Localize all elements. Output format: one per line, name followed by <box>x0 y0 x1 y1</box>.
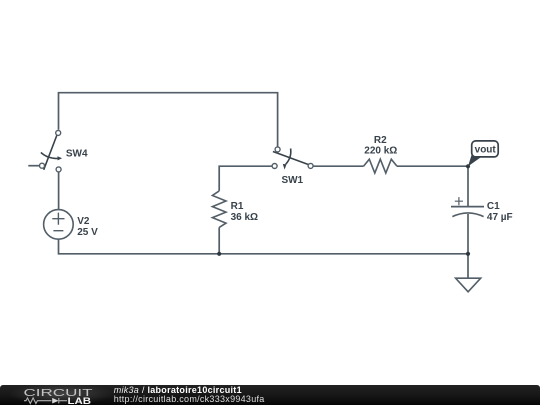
switch SW1 blade and motion arrow <box>273 149 310 166</box>
footer credit text <box>114 386 265 404</box>
svg-text:LAB: LAB <box>68 396 92 405</box>
resistor R2 220k horizontal zigzag <box>364 159 398 173</box>
switch SW1 terminal circles <box>272 147 313 169</box>
capacitor C1 polarized plates <box>451 197 484 217</box>
svg-text:220 kΩ: 220 kΩ <box>364 146 397 157</box>
svg-text:47 µF: 47 µF <box>487 212 513 223</box>
switch SW4 terminal circles <box>40 130 62 172</box>
switch SW4 blade and motion arrow <box>41 135 58 170</box>
wire C1 bottom plate to bottom rail <box>467 214 469 254</box>
junction dot at vout node <box>466 164 470 168</box>
svg-text:C1: C1 <box>487 201 500 212</box>
svg-text:V2: V2 <box>77 216 90 227</box>
wire R2 right lead to vout node <box>397 165 468 167</box>
wire vout node down to C1 top plate <box>467 166 469 207</box>
wire ground branch down to ground symbol <box>467 254 469 278</box>
footer bar <box>0 385 540 405</box>
svg-text:36 kΩ: 36 kΩ <box>231 212 258 223</box>
svg-text:25 V: 25 V <box>77 227 98 238</box>
wire R1 bottom lead to bottom rail <box>218 227 220 253</box>
wire bottom rail from V2 minus to ground branch <box>59 239 469 254</box>
junction dot at C1 ground branch on bottom rail <box>466 252 470 256</box>
wire R1 top lead to SW1 left throw <box>219 166 272 191</box>
node vout flag <box>468 154 482 167</box>
wire SW4 left throw open stub <box>28 165 39 167</box>
wire SW1 right terminal to R2 left lead <box>313 165 363 167</box>
voltage source V2 circle with plus minus <box>44 210 74 240</box>
svg-text:vout: vout <box>475 144 497 155</box>
junction dot at R1 bottom on bottom rail <box>217 252 221 256</box>
ground symbol <box>456 278 481 292</box>
svg-text:R2: R2 <box>374 135 387 146</box>
svg-text:SW1: SW1 <box>281 175 303 186</box>
wire SW4 bottom terminal to V2 plus terminal <box>58 172 60 210</box>
svg-text:SW4: SW4 <box>66 148 88 159</box>
svg-text:R1: R1 <box>231 201 244 212</box>
resistor R1 36k vertical zigzag <box>212 191 226 228</box>
CircuitLab logo <box>20 385 104 405</box>
wire top rail from SW4 down-corner to SW1 top <box>59 93 278 147</box>
